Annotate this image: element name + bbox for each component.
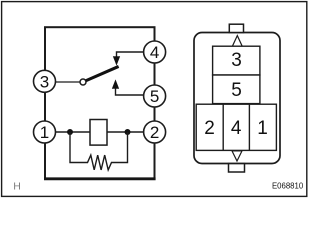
svg-text:3: 3 xyxy=(40,72,49,91)
outer frame xyxy=(2,2,307,197)
terminal circle 1 xyxy=(34,121,56,143)
svg-text:4: 4 xyxy=(150,43,159,62)
svg-text:5: 5 xyxy=(150,87,159,106)
arrow contact toward terminal 5 xyxy=(112,80,118,88)
relay outline box xyxy=(45,27,155,179)
svg-text:1: 1 xyxy=(40,123,49,142)
connector top tab xyxy=(229,24,243,32)
cavity divider right xyxy=(248,104,250,150)
keying triangle down xyxy=(232,151,242,161)
connector bottom tab xyxy=(229,164,245,172)
svg-text:2: 2 xyxy=(204,118,215,139)
wire terminal3 to switch pivot xyxy=(55,81,81,83)
switch pivot open circle xyxy=(80,79,86,85)
svg-text:5: 5 xyxy=(231,80,242,101)
wire coil main horizontal terminal1 to terminal2 xyxy=(55,131,144,133)
svg-text:4: 4 xyxy=(231,118,242,139)
svg-text:1: 1 xyxy=(257,118,268,139)
terminal circle 3 xyxy=(34,70,56,92)
terminal circle 5 xyxy=(144,85,166,107)
relay outline bottom thick edge xyxy=(44,177,156,180)
svg-text:2: 2 xyxy=(150,123,159,142)
terminal circle 2 xyxy=(144,121,166,143)
cavity 3 box xyxy=(213,46,260,75)
cavity 5 box xyxy=(213,75,260,104)
arrow contact toward terminal 4 xyxy=(113,57,119,65)
svg-text:H: H xyxy=(13,180,21,192)
svg-text:3: 3 xyxy=(231,50,242,71)
resistor zigzag branch xyxy=(70,132,128,170)
junction dot right xyxy=(125,129,131,135)
junction dot left xyxy=(67,129,73,135)
coil box xyxy=(90,120,107,146)
terminal circle 4 xyxy=(144,41,166,63)
wire branch to contact 4 xyxy=(117,52,144,59)
cavity row box xyxy=(196,104,276,150)
switch blade xyxy=(85,66,118,81)
cavity divider left xyxy=(222,104,224,150)
wire branch to contact 5 xyxy=(116,88,144,95)
keying triangle up xyxy=(232,36,242,47)
svg-text:E068810: E068810 xyxy=(272,181,304,190)
connector body xyxy=(194,33,280,164)
